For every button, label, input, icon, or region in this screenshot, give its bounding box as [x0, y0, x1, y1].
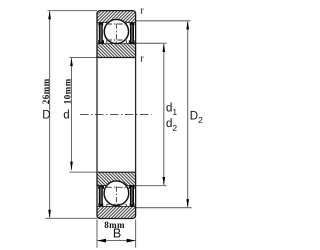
inner ring top section hatch	[97, 19, 136, 58]
dimension d bottom arrow	[70, 162, 73, 171]
svg-text:r: r	[140, 6, 144, 17]
extension line d top	[69, 57, 97, 59]
extension line B right	[135, 220, 137, 248]
inner ring top shoulder edges	[97, 43, 136, 45]
dimension D2 bottom arrow	[186, 199, 189, 208]
extension line d1/d2 bottom	[136, 185, 167, 187]
inner ring bore surface top	[98, 57, 136, 59]
dimension D2 top arrow	[186, 21, 189, 30]
raceway shoulder ticks bottom	[107, 185, 127, 207]
svg-text:r: r	[140, 54, 144, 65]
dimension D vertical line	[49, 12, 51, 218]
dimension B line	[97, 240, 136, 242]
dimension B left arrow	[97, 239, 106, 243]
ball bottom section	[104, 181, 129, 206]
extension line D bottom	[46, 217, 98, 219]
svg-text:10mm: 10mm	[63, 78, 73, 104]
outer ring top section hatch	[97, 11, 136, 45]
dimension D top arrow	[48, 11, 51, 20]
extension line D2 bottom	[136, 207, 192, 209]
dimension d1/d2 top arrow	[162, 43, 165, 52]
outer ring bottom section hatch	[97, 180, 136, 218]
outer ring bottom inner-surface edge	[97, 205, 136, 207]
seal right top section	[129, 23, 135, 44]
extension line d bottom	[69, 171, 97, 173]
bearing outline top section	[97, 11, 136, 58]
extension line d1/d2 top	[136, 42, 167, 44]
dimension B right arrow	[127, 239, 136, 243]
hidden raceway dash-dot lines bottom ball	[107, 187, 127, 204]
seal left bottom section	[98, 186, 104, 207]
extension line D2 top	[136, 20, 191, 22]
bearing side faces in bore region	[97, 58, 136, 173]
extension line D top	[48, 10, 98, 12]
seal left top section	[98, 23, 104, 44]
hidden raceway dash-dot lines top ball	[107, 24, 127, 40]
inner ring bore surface bottom	[98, 171, 136, 173]
raceway shoulder ticks top	[107, 21, 127, 43]
bearing outline bottom section	[97, 172, 136, 218]
seal right bottom section	[129, 186, 135, 207]
svg-text:d: d	[63, 110, 69, 122]
svg-text:D: D	[42, 110, 50, 122]
bearing body white fill top section	[97, 11, 136, 58]
dimension d1/d2 bottom arrow	[162, 177, 165, 186]
bearing body white fill bottom section	[97, 172, 136, 218]
svg-text:26mm: 26mm	[41, 78, 51, 104]
dimension D2 vertical line	[187, 22, 189, 207]
dimension d1/d2 vertical line	[163, 44, 165, 185]
dimension D bottom arrow	[48, 210, 51, 219]
svg-text:B: B	[113, 227, 121, 241]
dimension d vertical line	[71, 58, 73, 170]
dimension d top arrow	[70, 58, 73, 67]
inner ring bottom section hatch	[97, 172, 136, 206]
inner ring bottom shoulder edges	[97, 185, 136, 187]
outer ring top inner-surface edges	[97, 22, 136, 24]
extension line B left	[96, 220, 98, 248]
centerline (bearing axis)	[80, 114, 152, 116]
ball top section	[104, 19, 128, 43]
